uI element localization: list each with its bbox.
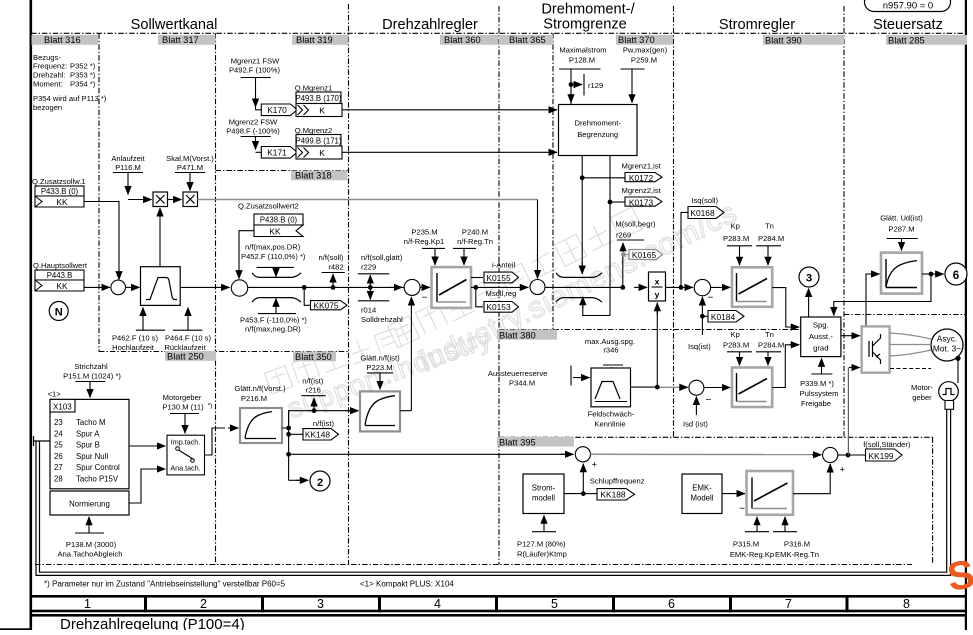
svg-text:EMK-Reg.Kp: EMK-Reg.Kp <box>730 550 774 559</box>
svg-text:P443.B: P443.B <box>47 271 73 280</box>
svg-text:P283.M: P283.M <box>723 341 749 350</box>
svg-text:Aussteuerreserve: Aussteuerreserve <box>488 369 548 378</box>
svg-text:2: 2 <box>317 477 323 489</box>
svg-text:+: + <box>840 465 846 476</box>
svg-text:Q.Zusatzsollw.1: Q.Zusatzsollw.1 <box>32 177 86 186</box>
svg-text:n957.90 = 0: n957.90 = 0 <box>883 1 933 12</box>
svg-text:Blatt 250: Blatt 250 <box>167 352 204 362</box>
svg-text:Sollwertkanal: Sollwertkanal <box>131 17 218 33</box>
svg-text:Blatt 380: Blatt 380 <box>499 331 536 341</box>
svg-text:*) Parameter nur im Zustand "A: *) Parameter nur im Zustand "Antriebsein… <box>44 580 286 589</box>
svg-text:P452.F (110,0%) *): P452.F (110,0%) *) <box>241 252 306 261</box>
svg-text:28: 28 <box>54 475 63 484</box>
svg-text:Drehmoment-/: Drehmoment-/ <box>541 2 635 18</box>
svg-text:P284.M: P284.M <box>758 234 784 243</box>
svg-text:Stromregler: Stromregler <box>719 17 795 33</box>
svg-text:−: − <box>422 293 428 304</box>
svg-text:P116.M: P116.M <box>115 163 141 172</box>
svg-text:25: 25 <box>54 441 63 450</box>
svg-text:KK188: KK188 <box>600 490 625 500</box>
svg-text:P462.F (10 s): P462.F (10 s) <box>112 334 158 343</box>
svg-text:x: x <box>655 277 660 287</box>
svg-text:24: 24 <box>54 429 63 438</box>
svg-text:K170: K170 <box>267 105 287 115</box>
svg-text:Rücklaufzeit: Rücklaufzeit <box>164 343 206 352</box>
svg-text:Tn: Tn <box>765 222 774 231</box>
svg-text:EMK-Reg.Tn: EMK-Reg.Tn <box>775 550 819 559</box>
svg-text:Spur Control: Spur Control <box>76 463 120 472</box>
svg-text:Spur B: Spur B <box>76 441 100 450</box>
svg-text:Blatt 390: Blatt 390 <box>765 36 802 46</box>
svg-text:Pulssystem: Pulssystem <box>800 389 839 398</box>
svg-text:Glätt. Ud(ist): Glätt. Ud(ist) <box>880 214 923 223</box>
svg-text:Mgrenz2 FSW: Mgrenz2 FSW <box>229 118 278 127</box>
svg-text:Kp: Kp <box>731 330 740 339</box>
svg-text:P216.M: P216.M <box>241 394 267 403</box>
svg-text:bezogen: bezogen <box>33 103 62 112</box>
svg-text:2: 2 <box>200 597 207 611</box>
svg-text:3: 3 <box>317 597 324 611</box>
svg-text:Frequenz:: Frequenz: <box>33 62 67 71</box>
svg-text:Maximalstrom: Maximalstrom <box>559 46 606 55</box>
svg-text:Blatt 316: Blatt 316 <box>44 35 81 45</box>
svg-text:P433.B (0): P433.B (0) <box>41 187 79 196</box>
svg-text:Solldrehzahl: Solldrehzahl <box>361 315 403 324</box>
svg-text:Spur Null: Spur Null <box>76 452 108 461</box>
svg-text:+: + <box>592 460 598 471</box>
svg-text:Blatt 370: Blatt 370 <box>618 35 655 45</box>
svg-text:Isd (ist): Isd (ist) <box>683 420 708 429</box>
svg-text:n/f(ist): n/f(ist) <box>302 377 324 386</box>
svg-text:Ana.tach.: Ana.tach. <box>170 464 200 473</box>
svg-text:M(soll,begr): M(soll,begr) <box>615 220 656 229</box>
svg-text:Imp.tach.: Imp.tach. <box>171 438 201 447</box>
svg-text:P128.M: P128.M <box>569 56 595 65</box>
svg-text:Blatt 365: Blatt 365 <box>509 35 546 45</box>
svg-text:Blatt 318: Blatt 318 <box>295 171 332 181</box>
svg-text:n/f(soll,glatt): n/f(soll,glatt) <box>361 253 403 262</box>
svg-text:modell: modell <box>532 494 555 503</box>
svg-text:geber: geber <box>912 393 932 402</box>
svg-text:Strom-: Strom- <box>532 484 556 493</box>
svg-text:P353 *): P353 *) <box>70 71 96 80</box>
svg-text:r014: r014 <box>361 306 376 315</box>
svg-text:Tn: Tn <box>765 330 774 339</box>
svg-text:1: 1 <box>84 597 91 611</box>
svg-text:K0173: K0173 <box>629 198 654 208</box>
svg-text:Drehzahlregler: Drehzahlregler <box>382 17 478 33</box>
svg-text:*): *) <box>208 403 213 410</box>
svg-text:Mgrenz1,ist: Mgrenz1,ist <box>622 162 662 171</box>
svg-text:Mgrenz2,ist: Mgrenz2,ist <box>622 186 662 195</box>
svg-text:Ana.TachoAbgleich: Ana.TachoAbgleich <box>57 550 122 559</box>
svg-text:y: y <box>655 290 660 300</box>
svg-text:7: 7 <box>785 597 792 611</box>
svg-text:Blatt 350: Blatt 350 <box>295 352 332 362</box>
svg-text:−: − <box>739 504 745 515</box>
svg-text:P138.M (3000): P138.M (3000) <box>66 540 117 549</box>
svg-text:P352 *): P352 *) <box>70 62 96 71</box>
svg-text:P492.F (100%): P492.F (100%) <box>229 66 281 75</box>
svg-text:grad: grad <box>813 344 828 353</box>
svg-text:P151.M (1024) *): P151.M (1024) *) <box>63 372 121 381</box>
svg-text:P471.M: P471.M <box>177 163 203 172</box>
svg-text:f(soll,Ständer): f(soll,Ständer) <box>863 440 911 449</box>
svg-text:Msoll,reg: Msoll,reg <box>486 289 517 298</box>
svg-text:n/f(ist): n/f(ist) <box>313 419 335 428</box>
svg-text:K171: K171 <box>267 148 287 158</box>
svg-text:Steuersatz: Steuersatz <box>873 17 943 33</box>
svg-text:Stromgrenze: Stromgrenze <box>543 17 627 33</box>
svg-text:Strichzahl: Strichzahl <box>74 362 108 371</box>
svg-text:Q.Mgrenz1: Q.Mgrenz1 <box>295 84 333 93</box>
svg-text:Blatt 317: Blatt 317 <box>162 35 199 45</box>
svg-text:Kp: Kp <box>731 222 740 231</box>
svg-text:Asyc.: Asyc. <box>937 334 957 344</box>
svg-text:K0172: K0172 <box>629 173 654 183</box>
svg-text:Blatt 285: Blatt 285 <box>888 36 925 46</box>
svg-text:<1>: <1> <box>48 390 62 399</box>
svg-text:26: 26 <box>54 452 63 461</box>
svg-text:N: N <box>55 307 63 319</box>
svg-text:6: 6 <box>668 597 675 611</box>
svg-text:P498.F (-100%): P498.F (-100%) <box>226 127 280 136</box>
svg-text:Glätt.n/f(ist): Glätt.n/f(ist) <box>360 354 400 363</box>
svg-text:P344.M: P344.M <box>509 379 535 388</box>
svg-text:Tacho P15V: Tacho P15V <box>76 475 119 484</box>
svg-text:K: K <box>319 148 325 158</box>
svg-text:Spur A: Spur A <box>76 429 100 438</box>
svg-text:P130.M (11): P130.M (11) <box>162 403 204 412</box>
svg-text:P287.M: P287.M <box>888 225 914 234</box>
svg-text:Normierung: Normierung <box>69 500 110 509</box>
svg-text:Glätt.n/f(Vorst.): Glätt.n/f(Vorst.) <box>234 384 286 393</box>
svg-text:r346: r346 <box>603 346 618 355</box>
svg-text:P354 *): P354 *) <box>70 80 96 89</box>
svg-text:r269: r269 <box>616 231 631 240</box>
svg-text:n/f-Reg.Kp1: n/f-Reg.Kp1 <box>404 237 445 246</box>
svg-text:Q.Zusatzsollwert2: Q.Zusatzsollwert2 <box>238 202 299 211</box>
svg-text:n/f(soll): n/f(soll) <box>319 253 344 262</box>
svg-text:P223.M: P223.M <box>366 363 392 372</box>
svg-text:4: 4 <box>434 597 441 611</box>
svg-text:23: 23 <box>54 418 63 427</box>
svg-text:Mgrenz1 FSW: Mgrenz1 FSW <box>231 57 280 66</box>
svg-text:P339.M *): P339.M *) <box>800 379 834 388</box>
svg-text:P316.M: P316.M <box>784 540 810 549</box>
svg-text:−: − <box>708 293 714 304</box>
svg-text:Q.Hauptsollwert: Q.Hauptsollwert <box>33 261 88 270</box>
svg-text:KK: KK <box>56 197 68 207</box>
svg-text:8: 8 <box>903 597 910 611</box>
svg-text:Drehzahl:: Drehzahl: <box>33 71 66 80</box>
svg-text:Skal.M(Vorst.): Skal.M(Vorst.) <box>166 154 214 163</box>
svg-text:P354 wird auf P113 *): P354 wird auf P113 *) <box>33 94 107 103</box>
svg-text:Freigabe: Freigabe <box>801 399 831 408</box>
svg-text:P499.B (171): P499.B (171) <box>296 137 342 146</box>
svg-text:KK148: KK148 <box>305 430 330 440</box>
svg-text:Blatt 319: Blatt 319 <box>296 35 333 45</box>
svg-text:Modell: Modell <box>691 494 714 503</box>
svg-text:6: 6 <box>953 270 959 282</box>
svg-text:n/f(max,neg.DR): n/f(max,neg.DR) <box>245 325 301 334</box>
svg-text:Isq(soll): Isq(soll) <box>691 196 718 205</box>
svg-text:KK: KK <box>56 281 68 291</box>
svg-text:Drehmoment-: Drehmoment- <box>574 119 621 128</box>
svg-text:P284.M: P284.M <box>758 341 784 350</box>
svg-text:Hochlaufzeit: Hochlaufzeit <box>112 343 155 352</box>
svg-text:5: 5 <box>551 597 558 611</box>
svg-text:27: 27 <box>54 463 63 472</box>
svg-text:Isq(ist): Isq(ist) <box>688 342 711 351</box>
svg-text:Drehzahlregelung (P100=4): Drehzahlregelung (P100=4) <box>60 616 245 630</box>
svg-text:r229: r229 <box>361 263 376 272</box>
svg-text:r216: r216 <box>306 386 321 395</box>
svg-text:Feldschwäch-: Feldschwäch- <box>588 410 635 419</box>
svg-text:Kennlinie: Kennlinie <box>594 420 625 429</box>
svg-text:R(Läufer)Ktmp: R(Läufer)Ktmp <box>517 550 567 559</box>
svg-text:P240.M: P240.M <box>462 228 488 237</box>
svg-text:Schlupffrequenz: Schlupffrequenz <box>590 477 645 486</box>
svg-text:r482: r482 <box>328 263 343 272</box>
svg-text:Motorgeber: Motorgeber <box>163 393 202 402</box>
svg-text:n/f(max,pos.DR): n/f(max,pos.DR) <box>245 243 301 252</box>
svg-text:Blatt 360: Blatt 360 <box>444 35 481 45</box>
svg-text:P464.F (10 s): P464.F (10 s) <box>165 334 211 343</box>
svg-text:P127.M (80%): P127.M (80%) <box>517 540 566 549</box>
svg-text:Mot. 3~: Mot. 3~ <box>933 344 961 354</box>
svg-text:P453.F (-110,0%) *): P453.F (-110,0%) *) <box>240 316 307 325</box>
svg-text:X103: X103 <box>53 403 72 412</box>
svg-text:Pw,max(gen): Pw,max(gen) <box>623 46 668 55</box>
svg-text:Motor-: Motor- <box>911 383 933 392</box>
svg-text:K0153: K0153 <box>486 302 511 312</box>
svg-text:K0168: K0168 <box>690 208 715 218</box>
svg-text:Begrenzung: Begrenzung <box>577 130 618 139</box>
svg-text:Ausst.-: Ausst.- <box>809 332 833 341</box>
svg-text:Q.Mgrenz2: Q.Mgrenz2 <box>295 126 333 135</box>
svg-text:P315.M: P315.M <box>733 540 759 549</box>
svg-text:KK075: KK075 <box>313 301 338 311</box>
svg-text:KK: KK <box>269 227 281 237</box>
svg-text:3: 3 <box>806 273 812 285</box>
svg-text:P235.M: P235.M <box>411 228 437 237</box>
svg-text:K0155: K0155 <box>486 273 511 283</box>
svg-text:<1> Kompakt PLUS: X104: <1> Kompakt PLUS: X104 <box>360 580 454 589</box>
svg-text:r129: r129 <box>588 81 603 90</box>
svg-text:n/f-Reg.Tn: n/f-Reg.Tn <box>457 237 493 246</box>
svg-text:Moment:: Moment: <box>33 80 63 89</box>
svg-text:Anlaufzeit: Anlaufzeit <box>111 154 145 163</box>
svg-text:K0165: K0165 <box>632 250 657 260</box>
svg-text:Tacho M: Tacho M <box>76 418 105 427</box>
svg-text:Blatt 395: Blatt 395 <box>499 438 536 448</box>
svg-text:i-Anteil: i-Anteil <box>492 260 516 269</box>
svg-text:P259.M: P259.M <box>631 56 657 65</box>
svg-text:EMK-: EMK- <box>692 484 712 493</box>
svg-text:−: − <box>706 395 712 406</box>
svg-text:P438.B (0): P438.B (0) <box>260 216 298 225</box>
svg-text:Spg.: Spg. <box>813 321 829 330</box>
svg-text:K: K <box>319 106 325 116</box>
svg-text:K0184: K0184 <box>711 312 736 322</box>
svg-text:P283.M: P283.M <box>723 234 749 243</box>
svg-text:P493.B (170): P493.B (170) <box>296 94 342 103</box>
svg-text:KK199: KK199 <box>868 451 893 461</box>
